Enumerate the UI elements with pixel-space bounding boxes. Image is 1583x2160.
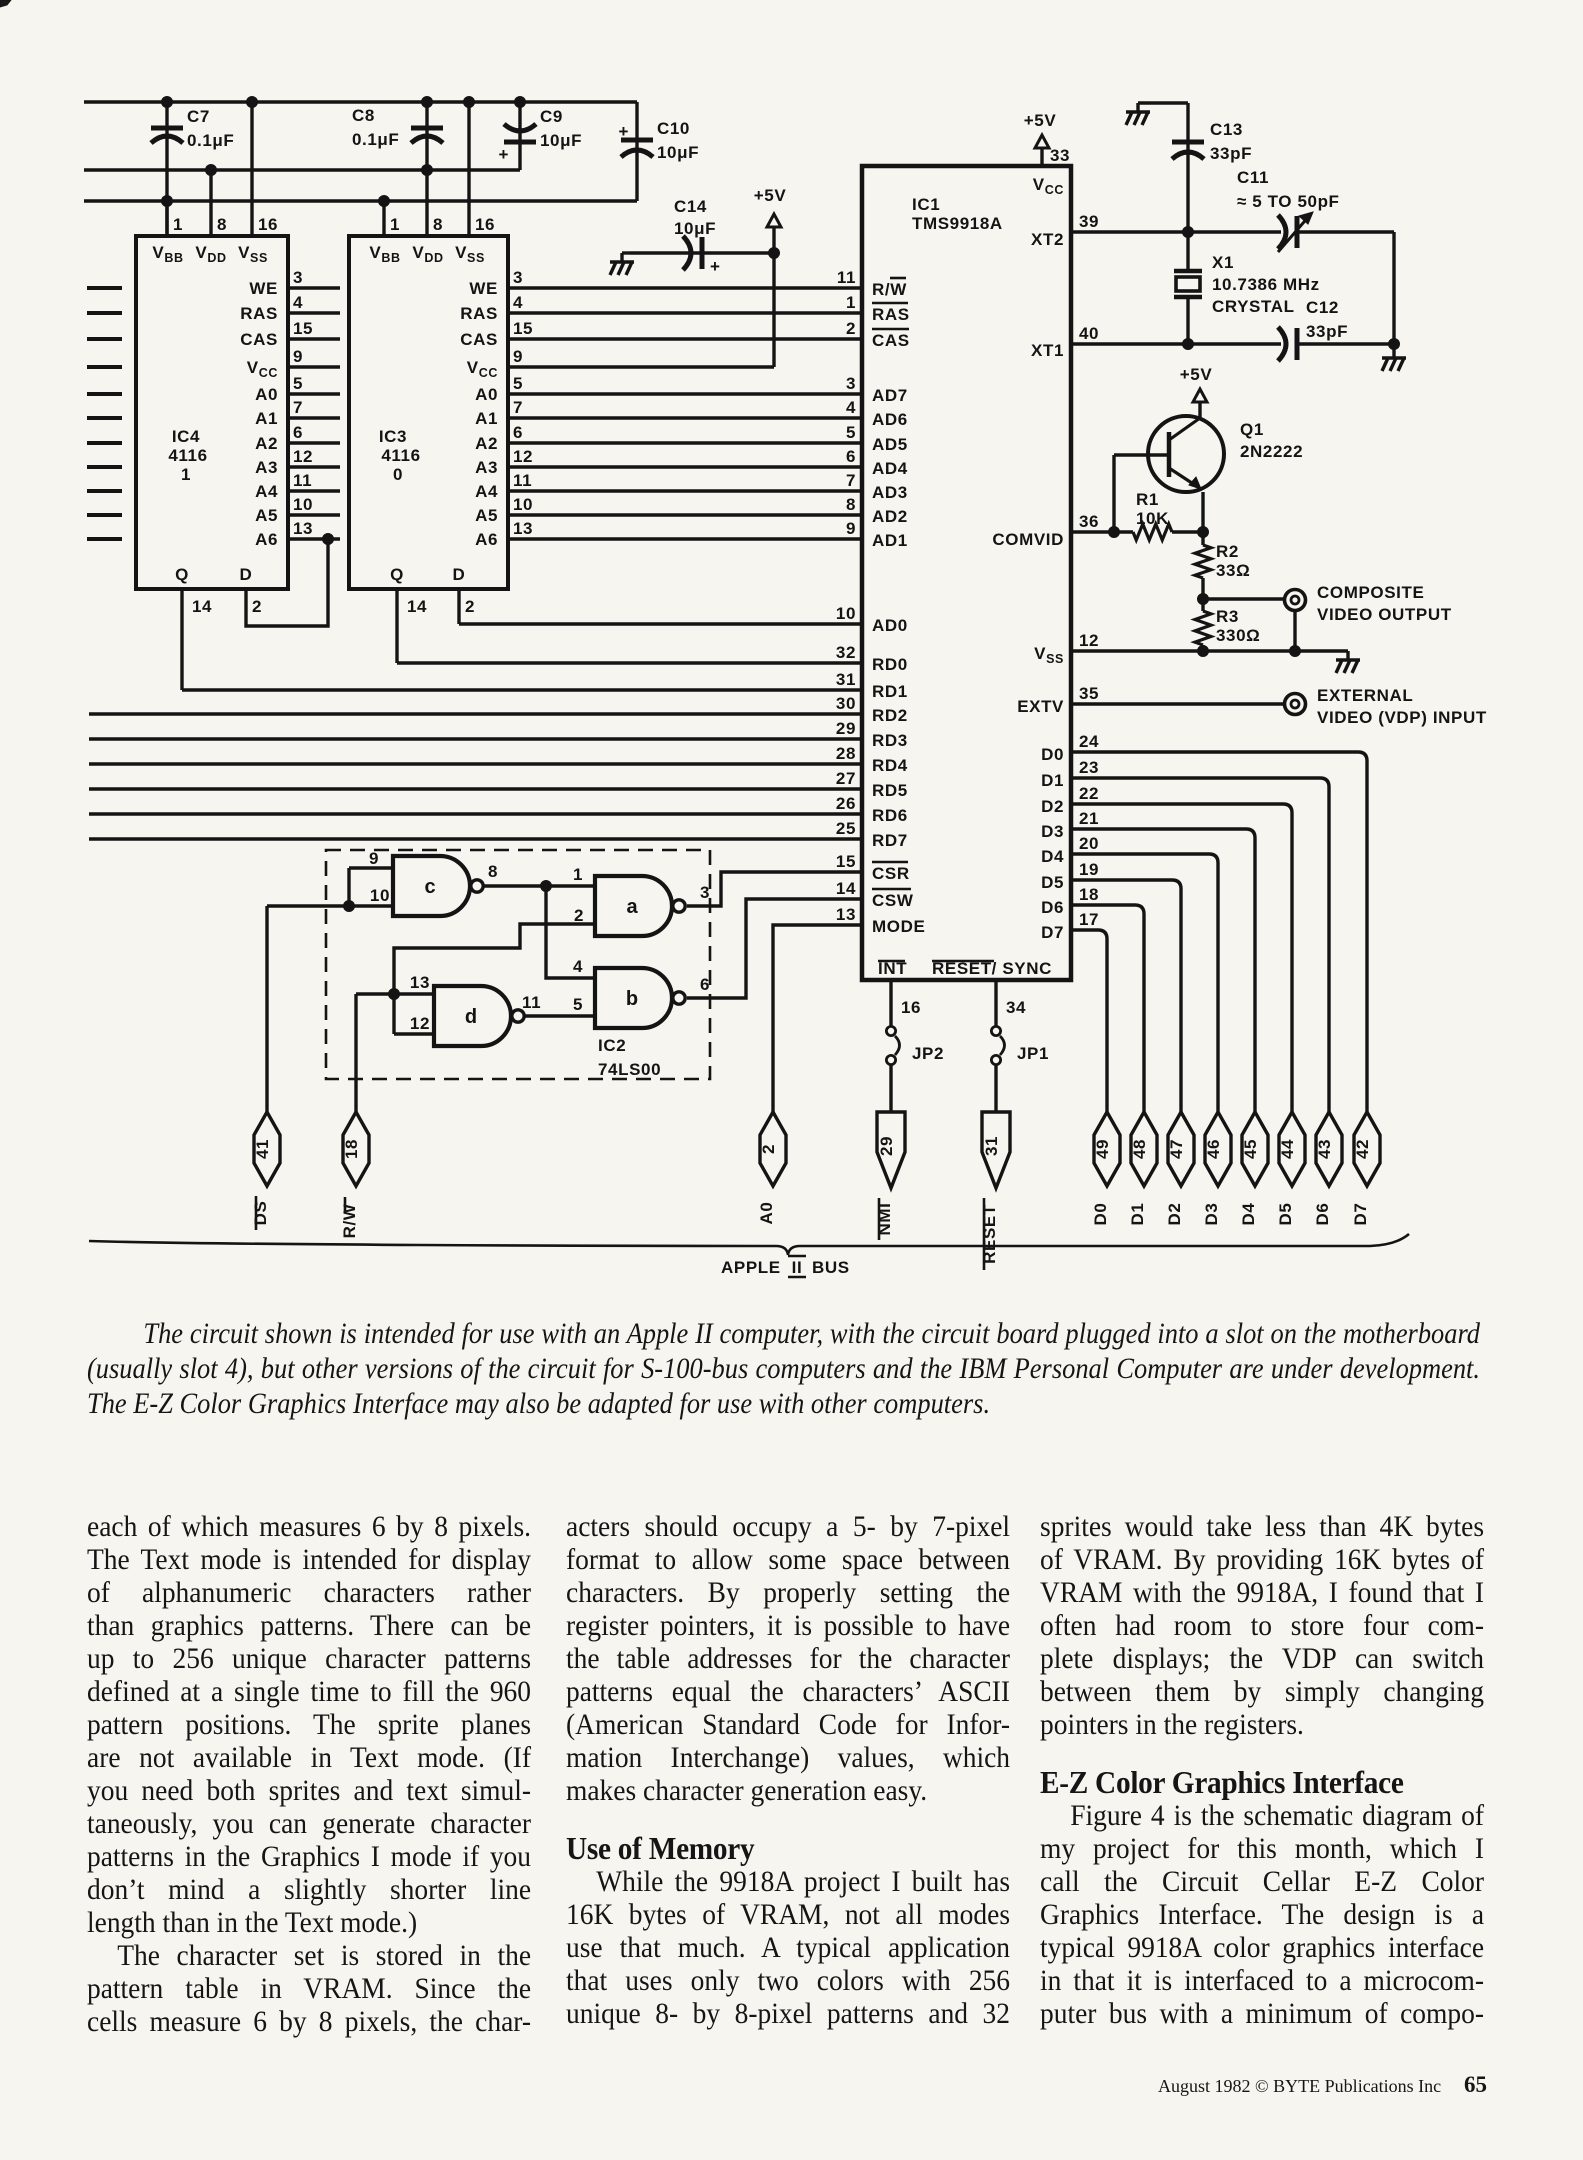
wire RD3 net from bus <box>89 737 862 740</box>
svg-text:0.1μF: 0.1μF <box>352 130 399 149</box>
wire RD4 net from bus <box>89 762 862 765</box>
svg-text:10μF: 10μF <box>657 143 699 162</box>
svg-text:9: 9 <box>293 347 303 366</box>
svg-text:4: 4 <box>513 293 523 312</box>
resistor R1 10K <box>1133 490 1203 540</box>
svg-text:R/W: R/W <box>340 1203 359 1238</box>
svg-text:X1: X1 <box>1212 253 1234 272</box>
svg-text:8: 8 <box>433 215 443 234</box>
svg-text:13: 13 <box>513 519 533 538</box>
svg-text:26: 26 <box>836 794 856 813</box>
svg-text:2: 2 <box>846 319 856 338</box>
svg-text:MODE: MODE <box>872 917 925 936</box>
wire IC4 pin8 VDD lead <box>211 170 227 236</box>
svg-text:TMS9918A: TMS9918A <box>912 214 1003 233</box>
svg-text:18: 18 <box>1079 885 1099 904</box>
svg-text:D7: D7 <box>1351 1203 1370 1226</box>
svg-text:CRYSTAL: CRYSTAL <box>1212 297 1295 316</box>
svg-text:≈ 5 TO 50pF: ≈ 5 TO 50pF <box>1237 192 1340 211</box>
resistor R2 33 ohm <box>1195 532 1250 599</box>
svg-text:39: 39 <box>1079 212 1099 231</box>
svg-text:36: 36 <box>1079 512 1099 531</box>
svg-text:16: 16 <box>901 998 921 1017</box>
svg-text:2: 2 <box>465 597 475 616</box>
svg-text:A6: A6 <box>255 530 278 549</box>
svg-text:AD4: AD4 <box>872 459 908 478</box>
svg-text:16: 16 <box>475 215 495 234</box>
svg-text:C9: C9 <box>540 107 563 126</box>
wire AD0 net (IC3 D to IC1 pin10) <box>459 622 862 625</box>
wire node to gate b pin4 <box>546 886 595 978</box>
wire RD6 net from bus <box>89 812 862 815</box>
svg-text:R3: R3 <box>1216 607 1239 626</box>
svg-text:5: 5 <box>573 995 583 1014</box>
svg-text:2: 2 <box>252 597 262 616</box>
svg-text:29: 29 <box>836 719 856 738</box>
svg-text:A1: A1 <box>255 409 278 428</box>
transistor Q1 2N2222 <box>1148 416 1303 492</box>
figure caption <box>87 1316 1480 1421</box>
svg-text:10: 10 <box>293 495 313 514</box>
svg-text:VSS: VSS <box>455 243 485 265</box>
svg-text:35: 35 <box>1079 684 1099 703</box>
body column 1 <box>87 1510 531 2038</box>
svg-text:A5: A5 <box>475 506 498 525</box>
svg-text:D2: D2 <box>1041 797 1064 816</box>
svg-text:XT2: XT2 <box>1031 230 1064 249</box>
capacitor C7 0.1uF <box>151 102 234 236</box>
svg-text:33Ω: 33Ω <box>1216 561 1250 580</box>
svg-text:5: 5 <box>846 423 856 442</box>
svg-text:18: 18 <box>342 1139 361 1159</box>
wire right vertical joining C11/C12 <box>1392 232 1395 344</box>
bus connector D1 pin 48 <box>1128 1112 1157 1225</box>
wire IC4 Q pin14 to RD1 <box>182 589 212 690</box>
svg-text:15: 15 <box>293 319 313 338</box>
svg-text:D6: D6 <box>1041 898 1064 917</box>
wire IC3 pin16 VSS lead <box>469 102 495 236</box>
wire VSS net pin12 with ground <box>1071 646 1360 674</box>
svg-text:48: 48 <box>1130 1139 1149 1159</box>
+5V arrow feeding VCC of DRAMs <box>754 186 787 367</box>
svg-text:1: 1 <box>390 215 400 234</box>
svg-text:8: 8 <box>488 862 498 881</box>
svg-text:11: 11 <box>513 471 532 490</box>
capacitor C10 10uF <box>618 102 699 201</box>
svg-text:RD7: RD7 <box>872 831 908 850</box>
svg-text:10μF: 10μF <box>674 219 716 238</box>
svg-text:R2: R2 <box>1216 542 1239 561</box>
svg-text:+5V: +5V <box>1024 111 1057 130</box>
svg-text:9: 9 <box>369 849 379 868</box>
svg-text:D3: D3 <box>1041 822 1064 841</box>
svg-text:VDD: VDD <box>412 243 443 265</box>
svg-text:D3: D3 <box>1202 1203 1221 1226</box>
body column 2 <box>566 1510 1010 2030</box>
svg-text:C7: C7 <box>187 107 210 126</box>
svg-text:45: 45 <box>1241 1139 1260 1159</box>
svg-text:17: 17 <box>1079 910 1099 929</box>
bus connector D0 pin 49 <box>1091 1112 1120 1225</box>
svg-text:32: 32 <box>836 643 856 662</box>
svg-text:Q: Q <box>175 565 189 584</box>
svg-text:D4: D4 <box>1239 1203 1258 1226</box>
Apple II bus brace <box>89 1234 1409 1255</box>
svg-text:7: 7 <box>513 398 523 417</box>
svg-text:WE: WE <box>469 279 498 298</box>
svg-text:II: II <box>792 1258 803 1277</box>
svg-text:8: 8 <box>846 495 856 514</box>
svg-text:VIDEO OUTPUT: VIDEO OUTPUT <box>1317 605 1452 624</box>
svg-text:RAS: RAS <box>460 304 498 323</box>
bus connector RESET pin 31 <box>980 1112 1010 1270</box>
svg-text:A5: A5 <box>255 506 278 525</box>
bus connector NMI pin 29 <box>875 1112 905 1240</box>
svg-text:D6: D6 <box>1313 1203 1332 1226</box>
wire base lead <box>1114 455 1169 532</box>
svg-text:22: 22 <box>1079 784 1099 803</box>
svg-text:74LS00: 74LS00 <box>598 1060 661 1079</box>
svg-text:40: 40 <box>1079 324 1099 343</box>
wire RD1 net (IC4 Q to IC1 pin31) <box>182 688 862 691</box>
svg-text:R/W: R/W <box>872 280 907 299</box>
wire IC4 right pin stubs (pins 3,4,15,9,5,7,6,12,11,10,13) <box>288 268 340 539</box>
svg-text:3: 3 <box>513 268 523 287</box>
svg-text:VBB: VBB <box>152 243 183 265</box>
IC1 bottom labels INT and RESET/SYNC <box>878 959 1052 978</box>
svg-text:8: 8 <box>217 215 227 234</box>
svg-text:d: d <box>465 1006 477 1028</box>
NAND gate a <box>595 876 685 936</box>
svg-text:1: 1 <box>181 465 191 484</box>
svg-text:COMVID: COMVID <box>992 530 1064 549</box>
svg-text:1: 1 <box>573 865 583 884</box>
svg-text:b: b <box>626 988 638 1010</box>
svg-text:9: 9 <box>513 347 523 366</box>
svg-text:13: 13 <box>410 973 430 992</box>
svg-text:VSS: VSS <box>238 243 268 265</box>
external video input connector on EXTV pin35 <box>1071 686 1487 727</box>
VDP IC1 TMS9918A outline <box>862 166 1071 980</box>
svg-text:6: 6 <box>293 423 303 442</box>
wire gate c output pin8 node <box>483 862 595 892</box>
IC4 pin name labels WE RAS CAS VCC A0-A6 <box>240 279 278 549</box>
svg-text:VSS: VSS <box>1034 644 1064 666</box>
svg-text:13: 13 <box>836 905 856 924</box>
APPLE II BUS label <box>721 1256 850 1277</box>
wire VCC net (IC3 VCC to +5V) <box>508 365 774 368</box>
svg-text:C10: C10 <box>657 119 690 138</box>
svg-text:VCC: VCC <box>467 358 498 380</box>
svg-text:2: 2 <box>574 906 584 925</box>
svg-text:D5: D5 <box>1276 1203 1295 1226</box>
svg-text:D1: D1 <box>1128 1203 1147 1226</box>
svg-text:41: 41 <box>253 1139 272 1159</box>
svg-text:AD6: AD6 <box>872 410 908 429</box>
svg-text:BUS: BUS <box>812 1258 850 1277</box>
wire D3 net (pin21) to bus pin 46 <box>1071 829 1255 1112</box>
svg-text:28: 28 <box>836 744 856 763</box>
svg-text:CAS: CAS <box>872 331 910 350</box>
svg-text:+5V: +5V <box>754 186 787 205</box>
svg-text:AD5: AD5 <box>872 435 908 454</box>
svg-text:D7: D7 <box>1041 923 1064 942</box>
svg-text:11: 11 <box>293 471 312 490</box>
IC2 74LS00 dashed outline <box>326 850 710 1079</box>
IC1 left pin numbers and labels <box>836 268 926 936</box>
DRAM IC4 4116 (bank 1) <box>136 236 288 589</box>
svg-text:A0: A0 <box>255 385 278 404</box>
IC3 pin name labels and stub numbers <box>460 268 533 549</box>
svg-text:+: + <box>618 122 629 141</box>
svg-text:D0: D0 <box>1041 745 1064 764</box>
svg-text:10: 10 <box>836 604 856 623</box>
bus connector D6 pin 43 <box>1313 1112 1342 1225</box>
svg-text:31: 31 <box>982 1136 1001 1156</box>
svg-text:10.7386 MHz: 10.7386 MHz <box>1212 275 1320 294</box>
svg-text:9: 9 <box>846 519 856 538</box>
svg-text:D5: D5 <box>1041 873 1064 892</box>
wire MODE net to A0 connector <box>773 925 862 1112</box>
svg-text:2: 2 <box>759 1144 778 1154</box>
svg-text:D0: D0 <box>1091 1203 1110 1226</box>
svg-text:C11: C11 <box>1237 168 1269 187</box>
svg-text:25: 25 <box>836 819 856 838</box>
wire CAS net (IC3 CAS to IC1 pin2) <box>508 337 862 340</box>
svg-text:4: 4 <box>846 398 856 417</box>
wire AD4 net (IC3 A3 to IC1) <box>508 465 862 468</box>
svg-text:C8: C8 <box>352 106 375 125</box>
svg-text:4116: 4116 <box>381 446 420 465</box>
NAND gate d <box>434 986 524 1046</box>
capacitor C14 10uF <box>630 197 774 276</box>
svg-text:21: 21 <box>1079 809 1099 828</box>
bus connector DS pin 41 <box>251 1112 280 1230</box>
wire D0 net (pin24) to bus pin 49 <box>1071 752 1367 1112</box>
wire D5 net (pin19) to bus pin 44 <box>1071 880 1181 1112</box>
svg-text:RD1: RD1 <box>872 682 908 701</box>
svg-text:31: 31 <box>836 670 856 689</box>
svg-text:IC3: IC3 <box>379 427 407 446</box>
jumper JP2 on NMI line <box>886 980 944 1112</box>
svg-text:4116: 4116 <box>168 446 207 465</box>
bus connector D2 pin 47 <box>1165 1112 1194 1225</box>
svg-text:VDD: VDD <box>195 243 226 265</box>
bus connector D4 pin 45 <box>1239 1112 1268 1225</box>
svg-text:A3: A3 <box>255 458 278 477</box>
svg-text:Q1: Q1 <box>1240 420 1264 439</box>
wire VCC pin33 lead with +5V arrow <box>1024 111 1070 166</box>
svg-text:D1: D1 <box>1041 771 1064 790</box>
DRAM IC3 4116 (bank 0) <box>349 236 508 589</box>
wire AD7 net (IC3 A0 to IC1) <box>508 392 862 395</box>
svg-text:+5V: +5V <box>1180 365 1213 384</box>
svg-text:5: 5 <box>293 374 303 393</box>
svg-text:15: 15 <box>513 319 533 338</box>
wire gate c inputs pins 9,10 tied to DS <box>344 849 394 912</box>
svg-text:23: 23 <box>1079 758 1099 777</box>
svg-text:CSR: CSR <box>872 864 910 883</box>
wire IC4 pin16 VSS lead <box>252 102 278 236</box>
svg-text:C13: C13 <box>1210 120 1243 139</box>
capacitor C13 33pF <box>1172 103 1252 232</box>
svg-text:44: 44 <box>1278 1139 1297 1159</box>
wire R/W net to gate d inputs <box>354 994 357 1112</box>
svg-text:IC2: IC2 <box>598 1036 626 1055</box>
svg-text:RD6: RD6 <box>872 806 908 825</box>
IC1 right pin numbers and labels <box>992 212 1099 942</box>
svg-text:A4: A4 <box>475 482 498 501</box>
svg-text:5: 5 <box>513 374 523 393</box>
wire AD3 net (IC3 A4 to IC1) <box>508 489 862 492</box>
svg-text:46: 46 <box>1204 1139 1223 1159</box>
svg-text:A0: A0 <box>757 1202 776 1225</box>
wire IC3 Q pin14 to RD0 <box>397 589 427 663</box>
page footer <box>1158 2076 1441 2097</box>
wire IC3 D pin2 to AD0 <box>459 589 475 624</box>
wire RD7 net from bus <box>89 837 862 840</box>
svg-text:0.1μF: 0.1μF <box>187 131 234 150</box>
capacitor C12 33pF <box>1278 298 1348 361</box>
wire gate a output pin3 to CSR <box>687 872 862 906</box>
svg-text:10μF: 10μF <box>540 131 582 150</box>
svg-text:D: D <box>240 565 253 584</box>
svg-text:AD3: AD3 <box>872 483 908 502</box>
wire IC4 left bus stubs <box>87 288 122 539</box>
svg-text:6: 6 <box>846 447 856 466</box>
wire emitter lead <box>1201 492 1204 532</box>
svg-text:WE: WE <box>249 279 278 298</box>
svg-text:14: 14 <box>192 597 212 616</box>
svg-text:a: a <box>626 896 638 918</box>
wire AD5 net (IC3 A2 to IC1) <box>508 441 862 444</box>
svg-text:16: 16 <box>258 215 278 234</box>
ground at C14 <box>610 253 634 275</box>
svg-text:27: 27 <box>836 769 856 788</box>
wire gate d inputs pins 13,12 tied to R/W <box>356 973 434 1034</box>
svg-text:XT1: XT1 <box>1031 341 1064 360</box>
wire gate b pin5 from gate d output <box>522 993 595 1016</box>
wire gate a pin2 from R/W node <box>394 906 595 994</box>
svg-text:33pF: 33pF <box>1306 322 1348 341</box>
svg-text:3: 3 <box>700 883 710 902</box>
wire RAS net (IC3 RAS to IC1 pin1) <box>508 311 862 314</box>
svg-text:JP2: JP2 <box>912 1044 944 1063</box>
svg-text:A0: A0 <box>475 385 498 404</box>
+5V arrow for Q1 collector <box>1180 365 1213 418</box>
bus connector R/W pin 18 <box>340 1112 369 1238</box>
IC2 labels <box>598 1036 661 1079</box>
svg-text:+: + <box>498 145 509 164</box>
svg-text:12: 12 <box>293 447 313 466</box>
wire R/W net (IC3 WE to IC1 pin11) <box>508 286 862 289</box>
svg-text:APPLE: APPLE <box>721 1258 781 1277</box>
wire RD0 net (IC3 Q to IC1 pin32) <box>397 661 862 664</box>
svg-text:43: 43 <box>1315 1139 1334 1159</box>
capacitor C9 10uF <box>498 102 582 170</box>
wire D2 net (pin22) to bus pin 47 <box>1071 804 1292 1112</box>
wire IC4 pin1 VBB lead <box>167 201 183 236</box>
wire VBB bottom supply rail <box>84 196 637 207</box>
svg-text:AD1: AD1 <box>872 531 908 550</box>
svg-text:RD2: RD2 <box>872 706 908 725</box>
svg-text:7: 7 <box>846 471 856 490</box>
svg-text:11: 11 <box>522 993 541 1012</box>
svg-text:13: 13 <box>293 519 313 538</box>
svg-text:19: 19 <box>1079 860 1099 879</box>
svg-text:Q: Q <box>390 565 404 584</box>
wire gate b output pin6 to CSW <box>687 899 862 998</box>
svg-text:VBB: VBB <box>369 243 400 265</box>
svg-text:7: 7 <box>293 398 303 417</box>
IC1 reference labels <box>912 195 1003 233</box>
wire COMVID net pin36 <box>1071 527 1209 538</box>
svg-text:AD2: AD2 <box>872 507 908 526</box>
wire IC4 D pin2 to A6 junction <box>246 534 334 627</box>
wire IC3 pin8 VDD lead <box>427 170 443 236</box>
svg-text:24: 24 <box>1079 732 1099 751</box>
svg-text:RD0: RD0 <box>872 655 908 674</box>
svg-text:29: 29 <box>877 1136 896 1156</box>
svg-text:VIDEO (VDP) INPUT: VIDEO (VDP) INPUT <box>1317 708 1487 727</box>
svg-text:RD5: RD5 <box>872 781 908 800</box>
wire AD1 net (IC3 A6 to IC1) <box>508 537 862 540</box>
svg-text:A6: A6 <box>475 530 498 549</box>
ground at C12 <box>1382 344 1406 371</box>
svg-text:AD7: AD7 <box>872 386 908 405</box>
svg-text:4: 4 <box>573 957 583 976</box>
svg-text:0: 0 <box>393 465 403 484</box>
svg-text:330Ω: 330Ω <box>1216 626 1260 645</box>
bus connector D7 pin 42 <box>1351 1112 1380 1225</box>
svg-text:12: 12 <box>1079 631 1099 650</box>
svg-text:33: 33 <box>1050 146 1070 165</box>
wire D7 net (pin17) to bus pin 42 <box>1071 930 1107 1112</box>
svg-text:3: 3 <box>846 374 856 393</box>
svg-text:CAS: CAS <box>460 330 498 349</box>
svg-text:JP1: JP1 <box>1017 1044 1049 1063</box>
svg-text:14: 14 <box>836 879 856 898</box>
svg-text:D4: D4 <box>1041 847 1064 866</box>
svg-text:30: 30 <box>836 694 856 713</box>
svg-text:A3: A3 <box>475 458 498 477</box>
wire IC3 pin1 VBB lead <box>384 201 400 236</box>
svg-text:12: 12 <box>410 1014 430 1033</box>
svg-text:10: 10 <box>370 886 390 905</box>
wire D6 net (pin18) to bus pin 43 <box>1071 905 1144 1112</box>
svg-text:+: + <box>710 257 721 276</box>
svg-text:34: 34 <box>1006 998 1026 1017</box>
capacitor C8 0.1uF <box>352 102 443 170</box>
body column 3 <box>1040 1510 1484 2030</box>
composite video output connector <box>1203 583 1452 651</box>
wire XT1 net pin40 <box>1071 339 1400 350</box>
wire D1 net (pin23) to bus pin 48 <box>1071 778 1329 1112</box>
NAND gate c <box>393 856 483 916</box>
svg-text:VCC: VCC <box>247 358 278 380</box>
wire VDD middle supply rail <box>84 165 520 176</box>
svg-text:20: 20 <box>1079 834 1099 853</box>
svg-text:10: 10 <box>513 495 533 514</box>
svg-text:A2: A2 <box>255 434 278 453</box>
svg-text:10K: 10K <box>1136 509 1169 528</box>
svg-text:CSW: CSW <box>872 891 914 910</box>
variable capacitor C11 5-50pF <box>1237 168 1340 252</box>
wire RD5 net from bus <box>89 787 862 790</box>
svg-text:49: 49 <box>1093 1139 1112 1159</box>
svg-text:6: 6 <box>700 975 710 994</box>
crystal X1 10.7386 MHz <box>1174 232 1320 344</box>
